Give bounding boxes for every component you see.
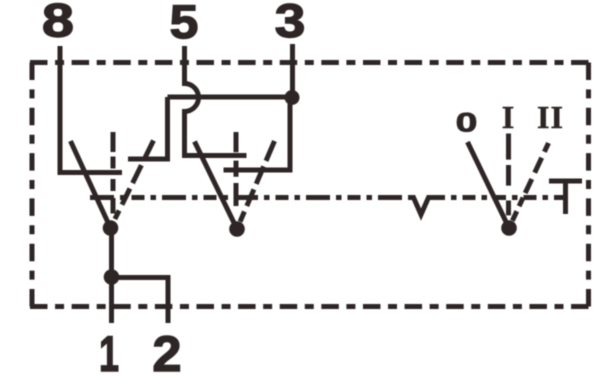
terminal label 8 [42,0,74,47]
junction node dot above terminal 1 [104,269,120,285]
terminal label 5 [170,0,199,48]
svg-text:I: I [502,99,514,135]
left switch dashed blade (alternate position) [115,141,154,220]
end stop T symbol [549,181,582,214]
left switch actuator dashed line [111,132,116,214]
svg-text:8: 8 [42,0,74,47]
enclosure dash-dot border bottom edge [30,304,589,309]
middle switch actuator dashed line [234,132,239,206]
wire terminal 5 down with crossover hop arc + fixed contact bar [185,46,247,156]
middle switch solid blade [195,142,238,230]
wire terminal 8 down + fixed contact arm [60,46,122,173]
junction node dot on wire 3 [285,90,300,105]
rotary switch dashed line position II [512,143,548,221]
wire terminal 3 down to node [290,44,295,97]
svg-text:5: 5 [170,0,199,48]
enclosure dash-dot border left edge [30,63,35,307]
mechanical coupling dash-dot line right part [432,195,565,200]
rotary switch solid blade position 0 [468,142,510,228]
position label 0 [456,108,478,138]
rotary switch common node dot [501,220,517,236]
enclosure dash-dot border right edge [586,63,591,307]
left switch solid blade [71,141,111,228]
branch wire to terminal 2 [112,278,169,324]
terminal label 2 [152,326,181,376]
mechanical coupling dash-dot line left part [90,195,410,200]
svg-text:II: II [537,99,564,135]
svg-text:1: 1 [99,327,119,376]
wire from left node down to junction [109,228,114,323]
middle switch common node dot [229,221,245,237]
middle switch dashed blade (alternate position) [240,141,274,222]
left switch common node dot [103,220,119,236]
svg-text:2: 2 [152,326,181,376]
detent V notch in coupling line [410,198,432,215]
horizontal wire from corner to node 3 [168,95,293,100]
terminal label 1 [99,327,119,376]
svg-text:3: 3 [275,0,306,47]
terminal label 3 [275,0,306,47]
drop wire from node 3 + fixed contact bar (middle cluster right seat) [224,97,291,170]
enclosure dash-dot border top edge [30,60,589,65]
rotary switch dashed line position I [506,134,511,216]
svg-text:0: 0 [456,108,478,138]
drop wire from horizontal wire + fixed contact bar (left cluster right seat) [128,97,168,159]
